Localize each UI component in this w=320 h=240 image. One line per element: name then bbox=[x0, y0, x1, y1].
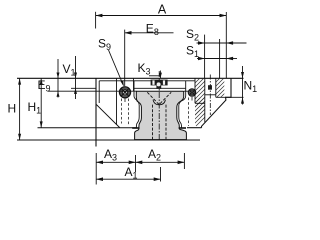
rail centre line bbox=[158, 71, 160, 140]
rail bolt hole dashed walls bbox=[152, 105, 154, 140]
carriage left edge bbox=[95, 78, 97, 146]
screw S9 (left fixing screw head, sectioned) bbox=[119, 87, 130, 125]
dimension V1 bbox=[57, 56, 78, 99]
tapped hole bottom bbox=[205, 94, 216, 96]
left foot dark bottom bbox=[132, 127, 139, 129]
countersink cup bbox=[153, 100, 165, 105]
carriage top surface line bbox=[17, 77, 244, 79]
carriage underside over rail bbox=[134, 87, 186, 89]
tapped hole left wall bbox=[204, 79, 206, 123]
rail cross-section bbox=[135, 91, 187, 139]
ground line (rail mounting plane) bbox=[17, 139, 200, 141]
hidden thread hole below left screw bbox=[121, 99, 123, 124]
dimension A1 bbox=[96, 165, 160, 181]
dimension A3 bbox=[96, 147, 135, 163]
dimension K3 (lube port) bbox=[138, 61, 162, 78]
dimension A2 bbox=[136, 147, 185, 163]
carriage left limb inner contour hugging rail bbox=[134, 88, 139, 127]
svg-text:A: A bbox=[158, 3, 167, 17]
dimension E9 bbox=[38, 78, 189, 94]
dimension E8 bbox=[125, 22, 174, 87]
dimension N1 bbox=[216, 66, 257, 105]
carriage bottom line right segment bbox=[187, 127, 202, 129]
right limb inner edge above underside bbox=[185, 81, 187, 89]
insert in tapped hole bbox=[208, 85, 212, 90]
bottom dims: extension lines bbox=[95, 153, 97, 185]
carriage left inner (end plate) line bbox=[98, 81, 100, 103]
carriage bottom line (left) bbox=[38, 127, 138, 129]
svg-text:H: H bbox=[8, 102, 17, 116]
left limb inner edge above underside bbox=[133, 81, 135, 89]
lube port at top centre bbox=[151, 80, 168, 89]
dimension S2 bbox=[186, 27, 247, 78]
dimension S1 bbox=[186, 44, 237, 60]
label S9 with leader to screw bbox=[98, 37, 124, 87]
pocket bottom edge bbox=[195, 102, 205, 104]
tapped hole centre line bbox=[209, 75, 211, 116]
left screw counterbore walls bbox=[116, 79, 118, 125]
rail bolt-hole countersink (dashed V) bbox=[147, 92, 171, 104]
dimension H bbox=[8, 78, 22, 140]
carriage roof inner line bbox=[99, 80, 194, 82]
tapped hole right wall bbox=[215, 79, 217, 98]
dimension A bbox=[96, 3, 227, 79]
hatched block with tapped hole S1/S2 (sectioned) bbox=[164, 75, 244, 139]
carriage right outline with step and chamfer bbox=[202, 78, 232, 127]
hatched pocket left edge bbox=[194, 79, 196, 104]
left chamfer edge bbox=[96, 104, 120, 128]
hidden thread hole below right screw bbox=[188, 98, 190, 127]
right fixing screw head bbox=[188, 89, 196, 126]
carriage right limb inner contour hugging rail bbox=[179, 88, 186, 127]
right foot dark bottom bbox=[179, 127, 186, 129]
dimension H1 bbox=[28, 78, 43, 127]
